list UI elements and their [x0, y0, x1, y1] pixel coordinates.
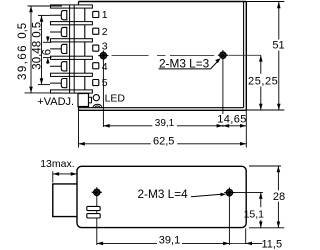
svg-text:0,5: 0,5 [32, 22, 44, 38]
svg-text:1: 1 [102, 9, 108, 21]
svg-text:39,1: 39,1 [155, 118, 175, 129]
svg-text:3: 3 [102, 41, 108, 53]
svg-text:13max.: 13max. [40, 158, 74, 170]
svg-text:5: 5 [102, 77, 108, 89]
svg-text:0,5: 0,5 [17, 23, 29, 39]
svg-text:LED: LED [105, 92, 126, 104]
svg-text:4: 4 [102, 61, 108, 73]
svg-text:25,25: 25,25 [248, 75, 278, 87]
svg-text:+VADJ.: +VADJ. [37, 96, 74, 108]
svg-text:2-M3 L=3: 2-M3 L=3 [159, 57, 210, 71]
svg-text:11,5: 11,5 [262, 239, 283, 250]
svg-text:15,1: 15,1 [244, 209, 265, 221]
svg-text:39,66: 39,66 [17, 44, 29, 80]
svg-text:51: 51 [272, 40, 284, 52]
svg-text:28: 28 [273, 191, 285, 203]
svg-text:62,5: 62,5 [153, 136, 174, 148]
svg-text:6: 6 [42, 49, 54, 55]
svg-text:39,1: 39,1 [159, 235, 180, 247]
svg-text:14,65: 14,65 [217, 114, 247, 126]
svg-text:2: 2 [102, 26, 108, 38]
svg-text:2-M3 L=4: 2-M3 L=4 [138, 187, 189, 201]
